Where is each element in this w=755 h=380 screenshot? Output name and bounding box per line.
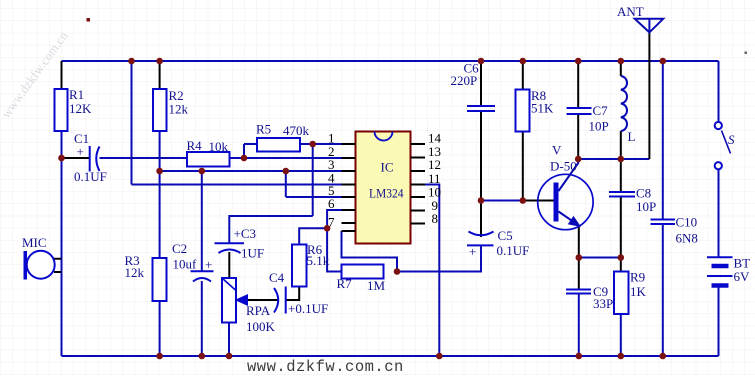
svg-text:1UF: 1UF bbox=[241, 246, 264, 261]
wire C2 bottom to ground bbox=[201, 281, 203, 356]
battery BT plates bbox=[707, 257, 733, 276]
svg-text:1M: 1M bbox=[367, 278, 386, 293]
stray red speck top-left bbox=[87, 18, 91, 22]
wire R8 bottom lead bbox=[522, 132, 524, 201]
capacitor C9 plates bbox=[566, 290, 591, 294]
junction top bus L bbox=[618, 58, 625, 65]
wire base row to transistor bbox=[481, 200, 523, 202]
svg-text:12K: 12K bbox=[69, 101, 92, 116]
svg-text:R5: R5 bbox=[256, 122, 271, 137]
svg-text:V: V bbox=[552, 143, 562, 158]
junction ground RPA bbox=[226, 353, 233, 360]
junction R6 pin6 bbox=[324, 225, 331, 232]
wire C3 bottom to RPA top bbox=[228, 252, 230, 278]
op-amp U1 left pin stubs 1-7 and aux bbox=[342, 144, 356, 231]
wire R5 left lead drop to row2 bbox=[243, 144, 245, 158]
wire C4 plate to R6 bottom bbox=[286, 287, 300, 300]
wire emitter row bbox=[579, 257, 621, 259]
wire C8 top lead bbox=[620, 159, 622, 192]
wire tank row collector/L/ANT bbox=[578, 158, 649, 160]
capacitor C2 plates bbox=[191, 271, 214, 281]
resistor R2 bbox=[153, 89, 167, 131]
wire C7 bottom lead to tank bbox=[577, 114, 579, 159]
wire switch to battery bbox=[718, 170, 720, 258]
resistor R7 bbox=[342, 265, 384, 279]
junction emitter C9 bbox=[576, 254, 583, 261]
svg-text:MIC: MIC bbox=[22, 235, 47, 250]
wire C6 bottom to base node bbox=[480, 111, 482, 201]
svg-text:6: 6 bbox=[328, 196, 335, 211]
junction top bus C6 bbox=[478, 58, 485, 65]
op-amp U1 IC LM324 body bbox=[356, 132, 411, 244]
wire R9 bottom to ground bbox=[620, 314, 622, 356]
capacitor C10 plates bbox=[651, 220, 676, 225]
svg-text:12k: 12k bbox=[125, 265, 145, 280]
wire R2 bottom to R3 top bbox=[159, 131, 161, 258]
wire R8 top lead bbox=[522, 61, 524, 90]
wire R1 top lead bbox=[61, 61, 63, 89]
wire L top lead bbox=[620, 61, 622, 76]
wire bus drop x131.5 to row4 bbox=[131, 61, 133, 185]
junction top bus R2 bbox=[156, 58, 163, 65]
transistor V collector diagonal bbox=[559, 159, 579, 191]
svg-text:51K: 51K bbox=[531, 101, 554, 116]
svg-text:L: L bbox=[628, 129, 636, 144]
wire bottom ground bus bbox=[62, 355, 719, 357]
svg-text:+: + bbox=[205, 257, 212, 272]
stray gray speck top-right bbox=[745, 52, 748, 55]
svg-text:www.dzkfw.com.cn: www.dzkfw.com.cn bbox=[247, 358, 404, 375]
wire C9 bottom to ground bbox=[578, 294, 580, 357]
junction tank L C8 bbox=[618, 156, 625, 163]
switch S lever bbox=[722, 131, 731, 154]
op-amp U1 right pin stubs 14-8 bbox=[411, 144, 426, 224]
wire R1 junction vertical x312.7 row1 to C3 line bbox=[312, 144, 314, 216]
svg-text:7: 7 bbox=[328, 215, 335, 230]
wire IC pin6 corner to R6 junction and R7 left bbox=[327, 210, 341, 272]
svg-text:+: + bbox=[469, 244, 476, 259]
wire C10 bottom to ground bbox=[662, 224, 664, 356]
resistor R4 bbox=[187, 152, 230, 167]
wire emitter vertical bbox=[578, 226, 580, 258]
wire row2 C1 to R4 bbox=[100, 157, 188, 159]
switch S upper contact bbox=[715, 122, 722, 129]
svg-text:+C3: +C3 bbox=[234, 226, 257, 241]
svg-text:RPA: RPA bbox=[246, 303, 271, 318]
junction R7 right bbox=[394, 268, 401, 275]
svg-text:R4: R4 bbox=[187, 138, 203, 153]
antenna ANT symbol bbox=[635, 19, 663, 33]
wire C2 top to row3 bbox=[201, 171, 203, 271]
wire C7 top lead bbox=[577, 61, 579, 108]
resistor R6 bbox=[292, 245, 307, 287]
capacitor C6 plates bbox=[467, 106, 495, 111]
junction C1 node bbox=[58, 155, 65, 162]
junction ground pin11 bbox=[436, 353, 443, 360]
wire RPA wiper to C4 bbox=[247, 299, 278, 301]
resistor R5 bbox=[257, 138, 300, 152]
junction emitter C8 R9 bbox=[618, 254, 625, 261]
wire R3 bottom to ground bbox=[159, 301, 161, 356]
wire IC pin7 stub feedback loop to R7 right bbox=[342, 231, 398, 272]
wire C3 top line bbox=[229, 216, 312, 244]
wire row3 R2R3 to IC pin3 bbox=[160, 170, 342, 172]
junction row3 R2R3 bbox=[156, 168, 163, 175]
junction row1 R5 out bbox=[309, 141, 316, 148]
wire row4 to IC pin4 bbox=[132, 184, 342, 186]
svg-text:12: 12 bbox=[428, 157, 441, 172]
wire ANT lead bbox=[648, 32, 650, 159]
potentiometer RPA wiper arrow bbox=[237, 296, 247, 305]
wire C6 top to bus bbox=[480, 61, 482, 106]
wire left rail (R1/MIC branch) bbox=[61, 61, 63, 356]
junction top bus R8 bbox=[520, 58, 527, 65]
faint diagonal site watermark top-left bbox=[0, 28, 72, 121]
svg-text:33P: 33P bbox=[593, 296, 613, 311]
resistor R3 bbox=[153, 258, 167, 301]
capacitor C4 plates bbox=[274, 287, 286, 314]
wire C8 bottom lead bbox=[620, 197, 622, 258]
svg-text:R7: R7 bbox=[337, 276, 353, 291]
wire right rail top (bus to switch) bbox=[718, 61, 720, 122]
battery BT thick plates bbox=[712, 266, 729, 286]
svg-text:8: 8 bbox=[432, 211, 439, 226]
svg-text:C4: C4 bbox=[269, 270, 285, 285]
svg-text:R9: R9 bbox=[630, 270, 645, 285]
wire row2 R4 to IC pin2 bbox=[230, 157, 342, 159]
transistor V emitter arrowhead bbox=[569, 217, 580, 227]
capacitor C8 plates bbox=[609, 192, 635, 197]
svg-text:10k: 10k bbox=[209, 139, 229, 154]
junction top bus C10 bbox=[660, 58, 667, 65]
svg-text:10P: 10P bbox=[589, 119, 609, 134]
wire IC pin11 to ground bbox=[425, 185, 439, 357]
svg-text:220P: 220P bbox=[451, 73, 478, 88]
svg-text:1K: 1K bbox=[630, 284, 647, 299]
svg-text:100K: 100K bbox=[246, 319, 276, 334]
wire row1 R5 leads to IC pin1 bbox=[244, 143, 342, 145]
junction base node R8 bbox=[520, 197, 527, 204]
wire MIC stubs bbox=[54, 259, 62, 272]
wire row3 drop x285.8 to row5 bbox=[285, 171, 287, 197]
svg-text:C10: C10 bbox=[676, 215, 698, 230]
svg-text:S: S bbox=[728, 132, 735, 147]
capacitor C3 plates bbox=[215, 243, 245, 253]
svg-text:IC: IC bbox=[381, 160, 394, 175]
wire R9 top lead bbox=[620, 258, 622, 272]
junction top bus x131.5 bbox=[128, 58, 135, 65]
capacitor C5 plates bbox=[467, 232, 494, 246]
potentiometer RPA body bbox=[222, 278, 236, 323]
svg-text:6N8: 6N8 bbox=[676, 231, 698, 246]
svg-text:C2: C2 bbox=[172, 241, 187, 256]
svg-text:ANT: ANT bbox=[617, 4, 644, 19]
junction ground R3 bbox=[156, 353, 163, 360]
svg-text:5.1k: 5.1k bbox=[307, 253, 330, 268]
wire C5 top to base node bbox=[480, 201, 482, 238]
transistor V emitter diagonal bbox=[559, 212, 579, 226]
resistor R8 bbox=[516, 90, 530, 132]
svg-text:C7: C7 bbox=[593, 103, 609, 118]
microphone MIC circle bbox=[27, 251, 55, 279]
junction base node C6C5 bbox=[478, 197, 485, 204]
junction ground C2 bbox=[199, 353, 206, 360]
svg-text:R1: R1 bbox=[69, 87, 84, 102]
wire R7 right to C5 bottom bbox=[397, 246, 481, 272]
resistor R9 bbox=[614, 272, 629, 315]
potentiometer RPA inner diagonal bbox=[223, 279, 237, 291]
junction row3 C2 bbox=[199, 168, 206, 175]
wire RPA bottom to ground bbox=[228, 323, 230, 357]
junction ground R9 bbox=[618, 353, 625, 360]
junction top bus C7 bbox=[575, 58, 582, 65]
junction ground C9 bbox=[576, 353, 583, 360]
capacitor C1 plates bbox=[90, 146, 100, 172]
junction row3 row5 drop bbox=[283, 168, 290, 175]
svg-text:LM324: LM324 bbox=[369, 186, 404, 201]
wire battery to ground bus bbox=[718, 286, 720, 356]
svg-text:C5: C5 bbox=[498, 228, 513, 243]
wire C10 top from bus bbox=[662, 61, 664, 220]
svg-text:10uf: 10uf bbox=[173, 257, 198, 272]
junction tank collector bbox=[575, 156, 582, 163]
transistor V base bar bbox=[554, 183, 559, 222]
wire row5 to IC pin5 bbox=[286, 196, 342, 198]
wire R6 top lead to junction bbox=[299, 228, 327, 244]
svg-text:0.1UF: 0.1UF bbox=[497, 243, 530, 258]
capacitor C7 plates bbox=[567, 108, 592, 114]
svg-text:D-50: D-50 bbox=[550, 159, 577, 174]
junction ground C10 bbox=[660, 353, 667, 360]
switch S lower contact bbox=[715, 162, 722, 169]
wire L bottom lead bbox=[620, 131, 622, 159]
wire C9 top lead bbox=[578, 258, 580, 290]
svg-text:0.1UF: 0.1UF bbox=[74, 169, 107, 184]
microphone MIC membrane bar bbox=[24, 251, 28, 280]
svg-text:10P: 10P bbox=[636, 199, 656, 214]
svg-text:6V: 6V bbox=[734, 269, 751, 284]
resistor R1 bbox=[55, 89, 68, 131]
transistor V circle bbox=[538, 174, 593, 229]
svg-text:12k: 12k bbox=[169, 102, 189, 117]
wire top supply bus bbox=[62, 60, 719, 62]
svg-text:+: + bbox=[77, 144, 84, 159]
svg-text:+0.1UF: +0.1UF bbox=[288, 301, 328, 316]
wire R2 top lead bbox=[159, 61, 161, 89]
wire C1 junction to plate bbox=[62, 157, 90, 159]
wire base lead black bbox=[523, 200, 554, 202]
svg-text:470k: 470k bbox=[283, 123, 310, 138]
inductor L coil bbox=[621, 76, 627, 131]
junction row2 R4 R5 bbox=[241, 155, 248, 162]
